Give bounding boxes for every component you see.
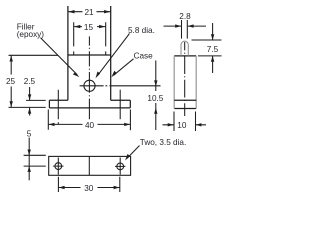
mounting hole centerline right front view [119,90,121,120]
leader 5.8 dia [96,34,130,79]
svg-text:10.5: 10.5 [147,94,163,103]
svg-text:Two, 3.5 dia.: Two, 3.5 dia. [140,138,186,147]
horizontal centerline through circle extended to 10.5 dim [80,85,161,87]
dim 15 [74,22,106,55]
dim 10.5 circle center to plate bottom [154,61,157,131]
sensing hole circle 5.8 dia [84,80,95,91]
dim 5 edge to hole center [24,138,46,181]
svg-text:40: 40 [85,121,95,130]
dim 10 side body width [163,112,207,132]
svg-text:30: 30 [84,184,94,193]
bottom view plate rectangle [49,156,131,175]
svg-text:15: 15 [84,23,94,32]
svg-text:5: 5 [27,130,32,139]
svg-text:10: 10 [177,121,187,130]
dim 2.5 plate thickness [26,87,46,116]
dim 21 [68,10,111,13]
mounting hole left 3.5 dia [53,158,63,175]
leader filler epoxy [41,38,80,77]
mounting hole right 3.5 dia [115,158,125,175]
svg-text:2.5: 2.5 [24,77,36,86]
label Filler (epoxy) [17,23,45,39]
side view body [174,56,196,109]
dim 30 hole spacing [58,177,119,192]
svg-text:25: 25 [6,77,16,86]
vertical centerline front view [88,36,90,119]
dim 2.8 pin width [164,20,207,39]
bottom view center line [88,156,90,175]
side view centerline [184,42,186,116]
svg-text:2.8: 2.8 [179,12,191,21]
mounting plate front view [49,100,130,108]
svg-text:7.5: 7.5 [207,45,219,54]
case outline front view [68,6,111,100]
leader two 3.5 dia [125,146,140,161]
mounting hole centerline left front view [57,90,59,124]
svg-text:21: 21 [85,8,95,17]
leader case [111,59,133,78]
side view pin with rounded top [181,41,188,56]
svg-text:Case: Case [134,52,154,61]
svg-text:(epoxy): (epoxy) [17,30,45,39]
dim 40 plate width [48,110,130,131]
dim 7.5 pin height [192,23,222,73]
dim 25 left [9,55,59,107]
svg-text:5.8 dia.: 5.8 dia. [128,26,155,35]
